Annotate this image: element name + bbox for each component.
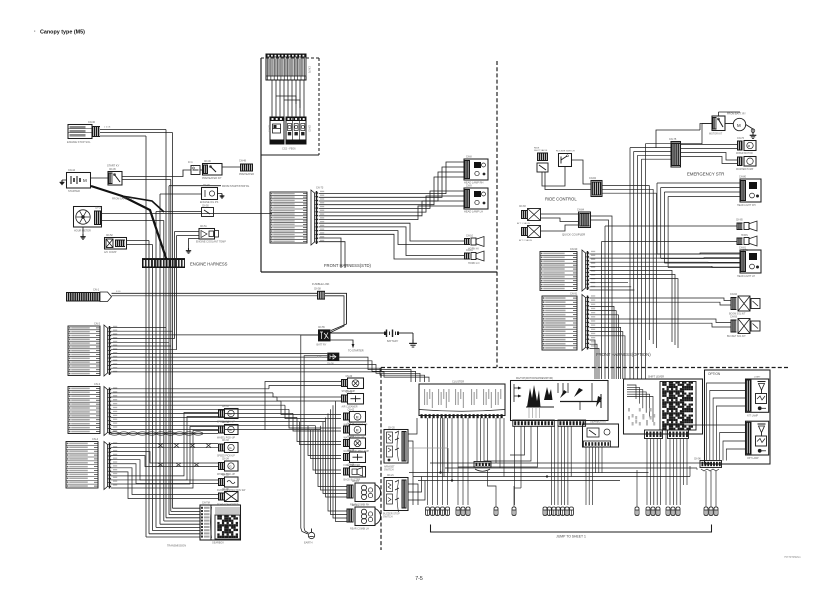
clutch A/C COMP (104, 235, 127, 254)
wire head light vertical risers (657, 183, 740, 268)
svg-text:CN-70: CN-70 (308, 66, 311, 74)
svg-text:OPTION: OPTION (708, 372, 721, 376)
svg-text:CN-92: CN-92 (730, 293, 738, 296)
svg-text:ATT 1 VALVE: ATT 1 VALVE (517, 222, 531, 225)
ground hour meter (80, 227, 85, 239)
pigtail group 8 (666, 507, 680, 516)
svg-text:CN-8: CN-8 (466, 156, 472, 159)
wire bus bottom 1 (409, 472, 649, 474)
pump W/S WASHER RH (736, 137, 756, 155)
svg-text:FUSIBLE LINK: FUSIBLE LINK (312, 282, 330, 286)
wire bundle to CN-75 (630, 148, 671, 160)
wire preheater link (200, 167, 240, 170)
relay PREHEATER KIT (188, 161, 222, 180)
svg-text:CN-76: CN-76 (737, 137, 745, 140)
wire bundle CN-3 out (111, 389, 326, 430)
svg-text:CN-46: CN-46 (204, 161, 211, 163)
wire stop sol run3 (100, 135, 146, 137)
svg-text:CN-91: CN-91 (570, 293, 578, 296)
box FRONT HARNESS(STD) (261, 58, 497, 272)
svg-text:CN-32: CN-32 (222, 422, 229, 424)
unit ATT LAMP B (746, 421, 769, 460)
svg-text:CN-20: CN-20 (388, 428, 395, 430)
svg-text:CN-51: CN-51 (200, 226, 207, 228)
box bottom dashed region (381, 368, 788, 551)
pigtail group 4 (512, 507, 516, 516)
svg-text:CN-2: CN-2 (94, 322, 101, 326)
svg-text:CN-45: CN-45 (109, 169, 116, 171)
svg-text:OPT LAMP: OPT LAMP (747, 457, 759, 460)
svg-text:MOTOR KIT: MOTOR KIT (709, 133, 723, 136)
unit MFA TCH OPTION (511, 377, 609, 426)
label RIDE CONTROL (545, 197, 577, 202)
label QUICK COUPLER (562, 233, 585, 237)
svg-text:STARTER: STARTER (68, 189, 80, 193)
sensor ENGINE COOLANT TEMP (196, 226, 226, 244)
divider dash-dot vertical (496, 61, 498, 367)
buzzer BACK BUZZER (343, 464, 366, 481)
relay BATTERY RY (317, 327, 331, 346)
wire aux relay (156, 211, 202, 213)
wire fusible to battery relay (325, 293, 347, 332)
wire switches right (408, 418, 448, 505)
svg-text:M: M (737, 123, 741, 128)
switch ROCKER SWITCH (556, 151, 575, 167)
wire battery relay to battery (331, 332, 386, 334)
svg-text:CN-65: CN-65 (348, 450, 355, 452)
svg-text:CN-49: CN-49 (203, 185, 210, 187)
motor STARTER (60, 169, 91, 193)
svg-text:MA/TCH(MOTOR/SW/RESISTOR): MA/TCH(MOTOR/SW/RESISTOR) (516, 377, 553, 380)
svg-text:GEARBOX: GEARBOX (212, 542, 224, 545)
svg-text:2 0.5B: 2 0.5B (104, 127, 111, 129)
pump washer LH (736, 157, 756, 172)
wire motor feed (656, 112, 740, 148)
relay motor kit (709, 113, 746, 136)
wire hour meter 2 (101, 220, 164, 222)
svg-text:REAR COMBI LH: REAR COMBI LH (350, 528, 369, 531)
connector PREHEATER (239, 160, 254, 177)
connector CN-75 vertical (669, 138, 681, 167)
wire bundle CN-90 out (590, 253, 741, 348)
svg-text:CN-84: CN-84 (577, 209, 585, 212)
diode unit (317, 353, 339, 366)
svg-text:ENGINE OIL PS: ENGINE OIL PS (200, 201, 219, 204)
svg-text:FRONT HARNESS(OPTION): FRONT HARNESS(OPTION) (596, 352, 651, 357)
svg-text:CN-63: CN-63 (348, 422, 355, 424)
wire shift lever downs (647, 439, 687, 506)
wire bundle STD to head lamps (319, 162, 464, 268)
svg-text:Canopy type (M5): Canopy type (M5) (40, 30, 85, 36)
svg-text:CN-44: CN-44 (68, 169, 76, 172)
svg-text:CN-75: CN-75 (669, 138, 677, 141)
speaker BUCKET X (727, 316, 760, 339)
svg-text:CN-10: CN-10 (466, 235, 474, 238)
svg-text:CN-34: CN-34 (222, 459, 229, 461)
terminal block CN-73 list (270, 192, 307, 243)
connector option mid (694, 459, 722, 472)
svg-text:CN-90: CN-90 (570, 248, 578, 251)
connector shift lever pins B (668, 430, 689, 439)
sensor TEMP CONVERTER (217, 489, 239, 506)
splice chain upper (158, 444, 211, 448)
battery BATTERY (384, 330, 413, 344)
wire CN75 right (681, 145, 738, 164)
svg-text:HEAD LAMP LH: HEAD LAMP LH (464, 210, 483, 214)
svg-text:EMERGENCY STR: EMERGENCY STR (687, 172, 724, 177)
terminal block CN-2 list (68, 322, 101, 376)
svg-text:ATT LAMP: ATT LAMP (747, 415, 758, 418)
svg-text:7-5: 7-5 (415, 576, 423, 582)
pigtail group 6 (635, 507, 639, 516)
wire bundle engine harness verticals (146, 130, 200, 538)
wire start key out (122, 170, 191, 180)
svg-text:BUCKET SOL KIT: BUCKET SOL KIT (727, 336, 746, 338)
svg-text:CN-31: CN-31 (222, 406, 229, 408)
switch ARM SET SWITCH (384, 428, 408, 472)
svg-text:ATT 2 VALVE: ATT 2 VALVE (519, 239, 533, 242)
svg-text:SHIFT LEVER: SHIFT LEVER (648, 376, 664, 379)
svg-text:CN-30: CN-30 (88, 121, 96, 124)
connector strip ENGINE HARNESS (142, 259, 185, 269)
splice chain lower (158, 463, 199, 467)
svg-text:CN-50: CN-50 (202, 205, 209, 207)
svg-text:CN-11: CN-11 (466, 249, 473, 252)
svg-text:CN-1: CN-1 (93, 288, 100, 292)
wire bus bottom 5 (445, 468, 697, 470)
svg-text:M: M (356, 415, 359, 419)
wire grid-to-fusepack bundle (272, 80, 304, 117)
svg-text:RIDE CONTROL: RIDE CONTROL (545, 197, 577, 202)
wire mesh rear combi (318, 401, 347, 521)
svg-text:CLUSTER: CLUSTER (452, 380, 464, 384)
speaker BOOM X (729, 293, 760, 316)
svg-text:CN-13: CN-13 (352, 481, 359, 483)
wire diode left to earth drop (304, 356, 327, 528)
svg-text:EARTH: EARTH (304, 542, 313, 545)
wire to starter arrow (331, 340, 364, 353)
wire trunk right bundle (630, 144, 657, 379)
wire mesh to mid comps (265, 382, 341, 474)
terminal block CN-4 list (66, 437, 99, 488)
wire coolant temp 1 (175, 231, 200, 233)
svg-text:CN-80: CN-80 (739, 176, 747, 179)
sensor FILTER RESTRICTION (217, 475, 246, 492)
gauge HOUR METER (74, 207, 103, 233)
terminal block CN-91 list (542, 293, 578, 351)
connector CN-1 with arrow (66, 288, 112, 302)
fuse block CS2-FE06 (267, 117, 309, 144)
svg-text:CN-28: CN-28 (95, 208, 102, 210)
connector TRANSMISSION (200, 502, 212, 541)
svg-text:HEAD LIGHT RH: HEAD LIGHT RH (737, 204, 756, 207)
gearbox TRANSMISSION checker (167, 505, 241, 548)
pigtail group 2 (456, 507, 470, 516)
svg-text:A/C COMP: A/C COMP (104, 251, 117, 254)
wire stop sol run2 (100, 132, 173, 134)
svg-text:TO STARTER: TO STARTER (348, 350, 364, 353)
label fuse block (282, 147, 296, 151)
svg-text:ENGINE STOP SOL: ENGINE STOP SOL (67, 140, 91, 144)
svg-text:FRONT HARNESS(STD): FRONT HARNESS(STD) (324, 263, 372, 268)
cable thick to safety relay (91, 186, 168, 264)
sensor ENGINE OIL PS (200, 185, 224, 204)
bracket JUMP TO SHEET 1 (431, 525, 712, 539)
pigtail group 1 (426, 507, 450, 516)
svg-text:CN-3: CN-3 (94, 382, 101, 386)
lamp REAR COMBI LH (347, 505, 381, 530)
wire starter to start key (91, 177, 109, 179)
svg-text:CN-36: CN-36 (222, 489, 229, 491)
pigtail group 7 (646, 507, 660, 516)
label FRONT HARNESS(OPTION) (596, 352, 651, 357)
wire relay left to earth drop (301, 335, 318, 528)
wire bundle CN-2 out (111, 328, 429, 383)
svg-text:WIPER MOTOR: WIPER MOTOR (736, 153, 753, 155)
svg-text:WASHER PUMP: WASHER PUMP (736, 168, 754, 171)
sensor SPEED SENSOR PICK-UP (217, 440, 238, 457)
lamp HEAD LAMP RH (464, 156, 488, 185)
wire hour meter 1 (101, 213, 272, 215)
unit GEARBOX KIT (583, 421, 619, 448)
wire gearbox downs (586, 447, 602, 505)
relay START KY (107, 164, 122, 186)
wire mfa downs (458, 426, 571, 505)
svg-text:ENGINE HARNESS: ENGINE HARNESS (190, 262, 228, 267)
svg-text:CN-82: CN-82 (589, 177, 597, 180)
svg-text:WHEEL PICK-UP: WHEEL PICK-UP (217, 437, 236, 439)
horn FRONT HORN LO (464, 249, 484, 265)
svg-text:HEAD LIGHT LH: HEAD LIGHT LH (737, 275, 755, 278)
wire head light rh feed (657, 183, 740, 197)
svg-text:CN-21: CN-21 (387, 475, 394, 477)
svg-text:75770T05ML1: 75770T05ML1 (784, 555, 801, 559)
connector ride control (589, 177, 602, 197)
svg-text:CN-9: CN-9 (466, 185, 472, 188)
svg-text:CN-52: CN-52 (106, 235, 113, 237)
wire bundle to motor kit (645, 124, 712, 144)
pigtail group 5 (543, 507, 573, 516)
wire from start stop rl (169, 185, 250, 188)
wire coolant temp 2 (177, 235, 200, 237)
wire bundle to ride control (602, 185, 657, 193)
ground battery (409, 333, 417, 347)
horn HORN LO right (737, 236, 758, 252)
wire cluster downs (428, 418, 505, 505)
unit ATT LAMP A (746, 377, 769, 418)
splice chain CN-3 to speed pickup (110, 432, 218, 435)
wire option feeds (666, 383, 746, 505)
sensor AIR CLEANER (341, 391, 364, 408)
wire oil ps (160, 193, 202, 195)
svg-text:·: · (34, 29, 36, 35)
svg-text:FROM START/STOP RL: FROM START/STOP RL (222, 185, 250, 188)
svg-text:M: M (356, 428, 359, 432)
valve QUICK COUPLER B (519, 226, 541, 243)
svg-text:CN-72: CN-72 (307, 125, 309, 132)
svg-text:CN-73: CN-73 (316, 187, 324, 190)
wire stop sol run1 (100, 127, 166, 130)
svg-text:CN-55: CN-55 (318, 327, 325, 329)
lamp HEAD LIGHT LH (737, 247, 761, 279)
page number 7-5 (415, 576, 423, 582)
terminal block CN-90 list (540, 248, 578, 291)
wire bundle bottoms to boxes (649, 340, 712, 379)
title Canopy type (M5) (34, 29, 85, 36)
wire cluster sub down (488, 471, 515, 507)
svg-text:CN-71: CN-71 (267, 125, 269, 132)
svg-text:QUICK COUPLER: QUICK COUPLER (562, 233, 585, 237)
lamp HEAD LAMP LH (464, 185, 488, 214)
switch BUZZER STOP SWITCH (383, 475, 408, 519)
wire bundle CN-4 out (111, 413, 218, 499)
wire bus bottom 3 (418, 480, 620, 482)
motor emergency M (725, 118, 746, 130)
valve SHUT VALVE (534, 148, 548, 173)
wire bus bottom 4 (430, 462, 712, 464)
wire bus bottom 2 (413, 466, 690, 477)
svg-text:FROM BATT. RY: FROM BATT. RY (727, 113, 746, 116)
wire ac comp 1 (127, 240, 150, 242)
motor WASHER R-UP (343, 422, 366, 439)
wire option mid downs (706, 471, 716, 507)
box OPTION (705, 370, 771, 464)
valve QUICK COUPLER A (517, 206, 541, 225)
svg-text:AIR CLEANER: AIR CLEANER (342, 406, 358, 409)
motor WASHER PICK-UP (343, 409, 368, 426)
svg-text:PREHEATER KIT: PREHEATER KIT (202, 177, 222, 180)
svg-text:SWITCH: SWITCH (383, 516, 393, 519)
junction dots (440, 472, 549, 482)
pigtail group 3 (494, 507, 498, 516)
unit SHIFT LEVER (624, 376, 703, 435)
label ENGINE HARNESS (190, 262, 228, 267)
svg-text:CN-56: CN-56 (327, 363, 334, 365)
horn FRONT HORN HI (464, 235, 484, 251)
fuse FUSIBLE LINK (312, 282, 330, 300)
svg-text:BATT RY: BATT RY (317, 343, 327, 346)
svg-text:BATTERY: BATTERY (387, 340, 399, 343)
connector CN-70 grid (266, 54, 311, 80)
svg-text:GEARBOX KIT: GEARBOX KIT (590, 421, 607, 424)
svg-text:CN-85: CN-85 (736, 220, 743, 222)
svg-text:CN-66: CN-66 (348, 464, 355, 466)
svg-text:M: M (83, 178, 87, 183)
svg-text:CN-33: CN-33 (222, 440, 229, 442)
sensor WIPER PICK-UP (217, 459, 238, 476)
sensor WHEEL PICK-UP (217, 422, 238, 439)
svg-text:CN-35: CN-35 (222, 475, 229, 477)
sensor FUEL SENDER (343, 450, 366, 467)
box fuse sub-box (261, 58, 319, 155)
wire horns right (602, 226, 737, 379)
connector CN-2 fan (104, 325, 117, 376)
lamp NUMBER PLATE LAMP (343, 436, 369, 453)
connector shift lever pins A (645, 430, 663, 439)
svg-text:CN-93: CN-93 (730, 316, 738, 319)
svg-text:CN-83: CN-83 (519, 206, 526, 208)
svg-text:SWITCH: SWITCH (384, 469, 394, 472)
svg-text:40 A: 40 A (188, 161, 193, 164)
svg-text:START KY: START KY (107, 164, 120, 168)
wire quick coupler (541, 214, 613, 379)
connector CN-3 fan (104, 387, 117, 436)
label FRONT HARNESS(STD) (324, 263, 372, 268)
svg-text:CN-81: CN-81 (739, 247, 747, 250)
wire pigtail feeds misc (636, 470, 638, 507)
terminal block CN-3 list (68, 382, 101, 434)
lamp REAR COMBI RH (347, 481, 381, 506)
lamp STOP LAMP (341, 376, 364, 393)
ground coolant temp (186, 239, 199, 254)
svg-text:CS2 - FE06: CS2 - FE06 (282, 147, 296, 151)
wire ride control (542, 160, 591, 190)
svg-text:ENGINE COOLANT TEMP: ENGINE COOLANT TEMP (196, 241, 226, 244)
svg-text:ROCKER SWITCH: ROCKER SWITCH (556, 151, 575, 153)
svg-text:HORN LO: HORN LO (468, 262, 479, 265)
svg-text:HOUR METER: HOUR METER (74, 230, 91, 233)
svg-text:B 5R: B 5R (317, 357, 322, 359)
svg-text:JUMP TO SHEET 1: JUMP TO SHEET 1 (556, 535, 586, 539)
connector cluster sub (474, 462, 491, 472)
svg-text:CN-4: CN-4 (92, 437, 99, 441)
svg-text:CN-14: CN-14 (352, 505, 359, 507)
svg-text:SPEED PICK-UP: SPEED PICK-UP (217, 455, 235, 457)
sensor SPEED PICK-UP (217, 406, 238, 423)
svg-text:HORN: HORN (741, 235, 748, 237)
horn HORN HI right (736, 220, 757, 238)
svg-text:LIGHT: LIGHT (754, 377, 761, 379)
pigtail group 9 (704, 507, 718, 516)
connector CN-91 fan (582, 295, 595, 351)
earth point (301, 528, 315, 545)
connector CN-4 fan (104, 442, 117, 490)
connector ENGINE STOP SOL (67, 121, 100, 144)
lamp HEAD LIGHT RH (737, 176, 761, 208)
svg-text:TRANSMISSION: TRANSMISSION (167, 545, 186, 548)
svg-text:PREHEATER: PREHEATER (239, 173, 254, 176)
ground motor (746, 125, 757, 139)
svg-text:CN-96: CN-96 (694, 459, 701, 461)
svg-text:CN-64: CN-64 (348, 436, 355, 438)
svg-text:SHUT VALVE: SHUT VALVE (534, 149, 548, 152)
svg-text:CN-60: CN-60 (346, 376, 353, 378)
label EMERGENCY STR (687, 172, 724, 177)
connector CN-90 fan (582, 250, 595, 291)
wire bundle CN-91 out (590, 298, 731, 379)
svg-text:CN-48: CN-48 (239, 160, 247, 163)
svg-text:CN-TM: CN-TM (202, 502, 210, 505)
svg-text:CN-61: CN-61 (346, 391, 353, 393)
svg-text:B 80: B 80 (116, 291, 121, 293)
wire ac comp 2 (127, 244, 153, 246)
doc number (784, 555, 801, 559)
connector quick coupler (577, 209, 591, 228)
wire CN-1 to fusible link (112, 291, 318, 296)
connector CN-73 fan (311, 187, 324, 246)
relay small AUX (202, 205, 214, 216)
unit CLUSTER (419, 380, 505, 419)
svg-text:CN-62: CN-62 (348, 409, 355, 411)
svg-text:FROM SAFETY RY: FROM SAFETY RY (112, 198, 134, 201)
svg-text:CN-58: CN-58 (314, 288, 321, 290)
